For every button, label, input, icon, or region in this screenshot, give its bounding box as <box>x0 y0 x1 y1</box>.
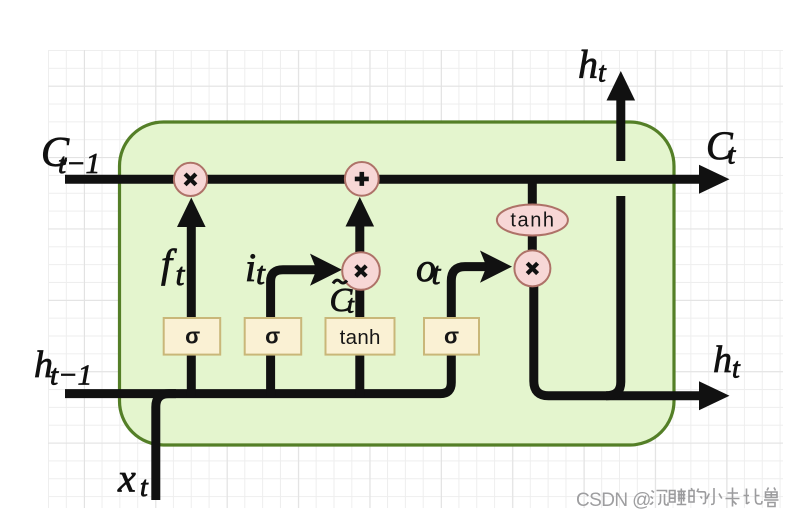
arrowhead: h_t top output <box>607 71 636 101</box>
svg-text:t: t <box>256 255 266 291</box>
svg-text:t: t <box>732 354 741 385</box>
wire: h line (bottom horizontal from h_{t-1} curving up into o gate) <box>65 267 490 394</box>
wire: cell state line C (top horizontal) <box>65 175 701 184</box>
svg-text:x: x <box>117 456 136 501</box>
arrowhead: o gate into multiply <box>480 251 512 283</box>
wire: candidate gate stem C~ <box>355 220 364 396</box>
multiply circle 2 (input x candidate) <box>342 252 380 290</box>
sigma box 1 (forget gate) <box>164 318 221 355</box>
svg-text:tanh: tanh <box>340 326 381 349</box>
tanh ellipse <box>497 205 568 236</box>
wire: x_t input joining h line <box>156 394 176 500</box>
svg-text:tanh: tanh <box>510 210 555 232</box>
wire: input gate stem i (curves right into multiply) <box>271 270 320 396</box>
wire: h_t branch upward (upper segment above C line) <box>616 98 625 161</box>
wire: C line down to tanh ellipse and multiply <box>528 179 537 252</box>
svg-text:σ: σ <box>444 324 459 349</box>
svg-text:t: t <box>728 140 737 171</box>
svg-text:t: t <box>347 292 355 319</box>
watermark chinese glyph approximations <box>650 488 779 507</box>
svg-text:σ: σ <box>265 324 280 349</box>
sigma box 2 (input gate) <box>245 318 302 355</box>
arrowhead: i into multiply circle <box>310 254 342 286</box>
svg-text:t: t <box>176 256 186 292</box>
svg-text:CSDN @: CSDN @ <box>576 490 651 511</box>
multiply circle 3 (output) <box>514 250 550 286</box>
sigma box 3 (output gate) <box>424 318 479 355</box>
arrowhead: C_t output <box>699 165 730 194</box>
tanh box (candidate) <box>326 318 395 355</box>
multiply circle 1 (forget) <box>174 163 207 196</box>
svg-text:h: h <box>713 339 732 381</box>
arrowhead: candidate into plus circle <box>346 197 375 227</box>
svg-text:t: t <box>598 58 607 89</box>
svg-text:i: i <box>245 245 256 290</box>
plus circle (cell state update) <box>345 162 379 196</box>
svg-text:t−1: t−1 <box>50 360 92 392</box>
svg-text:t−1: t−1 <box>58 148 100 180</box>
arrowhead: h_t output right <box>699 381 730 410</box>
svg-text:h: h <box>578 42 598 87</box>
arrowhead: f into multiply circle <box>177 198 206 228</box>
wire: forget gate stem f <box>187 220 196 396</box>
wire: h_t branch upward (lower segment with fillet) <box>606 196 621 396</box>
wire: output of tanh multiply down and right to h output <box>534 285 701 396</box>
svg-text:t: t <box>140 472 149 503</box>
svg-text:σ: σ <box>185 324 200 349</box>
LSTM cell body <box>120 122 675 445</box>
svg-text:t: t <box>432 255 442 291</box>
